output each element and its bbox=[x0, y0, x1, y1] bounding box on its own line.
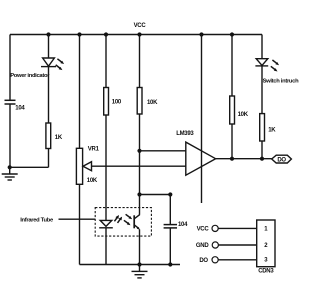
Infrared Tube dashed enclosure bbox=[95, 208, 151, 237]
svg-text:Power indicator: Power indicator bbox=[10, 73, 50, 79]
resistor R3 10K bbox=[137, 88, 142, 115]
wire rail corner to LED D2 bbox=[261, 35, 263, 59]
junction on rail at VR1 bbox=[77, 32, 81, 36]
wire Q1 emitter to bottom rail bbox=[139, 229, 141, 264]
junction at ground node bbox=[8, 165, 12, 169]
svg-text:VCC: VCC bbox=[197, 227, 210, 233]
svg-text:DO: DO bbox=[277, 157, 286, 163]
svg-text:Infrared Tube: Infrared Tube bbox=[20, 218, 54, 224]
svg-text:10K: 10K bbox=[147, 100, 158, 106]
svg-text:LM393: LM393 bbox=[176, 131, 194, 137]
wire rail to R2 bbox=[105, 35, 107, 88]
resistor R1 1K bbox=[46, 123, 51, 149]
wire LED D2 cathode to R5 bbox=[261, 66, 263, 114]
svg-text:10K: 10K bbox=[87, 178, 98, 184]
pin circle DO bbox=[212, 257, 218, 263]
junction on rail at op-amp supply bbox=[199, 32, 203, 36]
junction output and right 1K bbox=[260, 157, 264, 161]
junction output and right 10K bbox=[230, 157, 234, 161]
ground GND1 bbox=[2, 167, 18, 180]
connector CDN3 body bbox=[257, 220, 275, 267]
wire rail to VR1 top bbox=[79, 35, 81, 149]
wire label pointer to dashed box bbox=[59, 218, 96, 220]
pin circle GND bbox=[212, 242, 218, 248]
svg-text:CDN3: CDN3 bbox=[258, 269, 274, 275]
svg-text:100: 100 bbox=[112, 100, 122, 106]
VR1 wiper arrow bbox=[83, 162, 92, 171]
wire R1 to ground wire bbox=[48, 149, 50, 168]
wire VCC top rail bbox=[10, 34, 262, 36]
svg-text:GND: GND bbox=[196, 243, 209, 249]
junction at collector node bbox=[137, 192, 141, 196]
wire R3 to non-inverting node bbox=[139, 114, 141, 151]
LED D2 switch indicator bbox=[255, 59, 279, 72]
port DO flag bbox=[272, 155, 292, 163]
junction on rail at R 10K bbox=[137, 32, 141, 36]
wire node to collector node bbox=[139, 151, 141, 195]
phototransistor Q1 bbox=[124, 195, 140, 230]
wire R4 to output node bbox=[231, 124, 233, 159]
wire VR1 bottom to bottom rail bbox=[79, 184, 81, 264]
ground GND2 bbox=[132, 265, 148, 278]
junction at C2 bottom bbox=[168, 262, 172, 266]
capacitor C1 104 bbox=[5, 100, 16, 104]
wire rail to power LED anode bbox=[48, 35, 50, 59]
op-amp U1 LM393 bbox=[186, 142, 216, 175]
svg-text:Switch intruch: Switch intruch bbox=[263, 78, 299, 84]
wire IR LED cathode to bottom rail bbox=[105, 228, 107, 265]
junction at C2 top bbox=[168, 192, 172, 196]
potentiometer VR1 body bbox=[76, 148, 82, 184]
wire rail to R3 bbox=[139, 35, 141, 88]
wire ground node to R1 bottom bbox=[10, 166, 49, 168]
svg-text:3: 3 bbox=[264, 258, 268, 264]
svg-text:10K: 10K bbox=[238, 112, 249, 118]
LED D1 power indicator bbox=[41, 58, 64, 70]
wire op-amp supply pin bbox=[201, 35, 203, 204]
resistor R4 10K bbox=[230, 96, 235, 124]
wire LED D1 cathode to R1 bbox=[48, 67, 50, 123]
wire left branch upper bbox=[9, 35, 11, 100]
resistor R5 1K bbox=[260, 114, 265, 141]
wire GND pin to connector pin 2 bbox=[218, 244, 256, 246]
svg-text:1K: 1K bbox=[268, 128, 276, 134]
svg-text:104: 104 bbox=[15, 106, 25, 112]
wire left branch lower bbox=[9, 104, 11, 167]
wire R5 to output node bbox=[261, 141, 263, 159]
junction at non-inverting input node bbox=[137, 149, 141, 153]
junction on rail at R 100 bbox=[104, 32, 108, 36]
IR LED D3 bbox=[99, 215, 122, 228]
wire rail to R4 bbox=[231, 35, 233, 97]
wire VCC pin to connector pin 1 bbox=[218, 227, 257, 229]
svg-text:1K: 1K bbox=[55, 135, 63, 141]
wire bottom rail bbox=[80, 264, 181, 266]
wire R2 to IR LED anode bbox=[105, 115, 107, 220]
svg-text:2: 2 bbox=[264, 243, 268, 249]
wire to op-amp non-inverting input bbox=[140, 150, 186, 152]
svg-text:104: 104 bbox=[178, 222, 188, 228]
junction at ground on bottom rail bbox=[137, 262, 141, 266]
svg-text:VR1: VR1 bbox=[88, 147, 100, 153]
wire DO pin to connector pin 3 bbox=[218, 259, 257, 261]
wire VR1 wiper to op-amp inverting input bbox=[91, 165, 186, 167]
resistor R2 100 bbox=[104, 88, 109, 116]
svg-text:DO: DO bbox=[199, 258, 208, 264]
junction on rail at right 10K bbox=[230, 32, 234, 36]
svg-text:VCC: VCC bbox=[134, 23, 147, 29]
svg-text:1: 1 bbox=[264, 227, 268, 233]
junction on rail at power LED bbox=[46, 32, 50, 36]
wire op-amp output bbox=[216, 158, 272, 160]
wire collector node to C2 bbox=[140, 194, 171, 196]
capacitor C2 104 bbox=[164, 195, 177, 265]
pin circle VCC bbox=[212, 225, 218, 231]
